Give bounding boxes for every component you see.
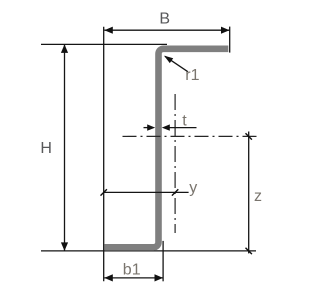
svg-text:y: y [189, 180, 197, 197]
svg-text:b1: b1 [123, 262, 141, 279]
svg-text:z: z [254, 188, 262, 205]
svg-text:r1: r1 [185, 67, 199, 84]
svg-text:B: B [159, 11, 170, 28]
svg-text:H: H [40, 140, 52, 157]
svg-text:t: t [182, 113, 187, 130]
